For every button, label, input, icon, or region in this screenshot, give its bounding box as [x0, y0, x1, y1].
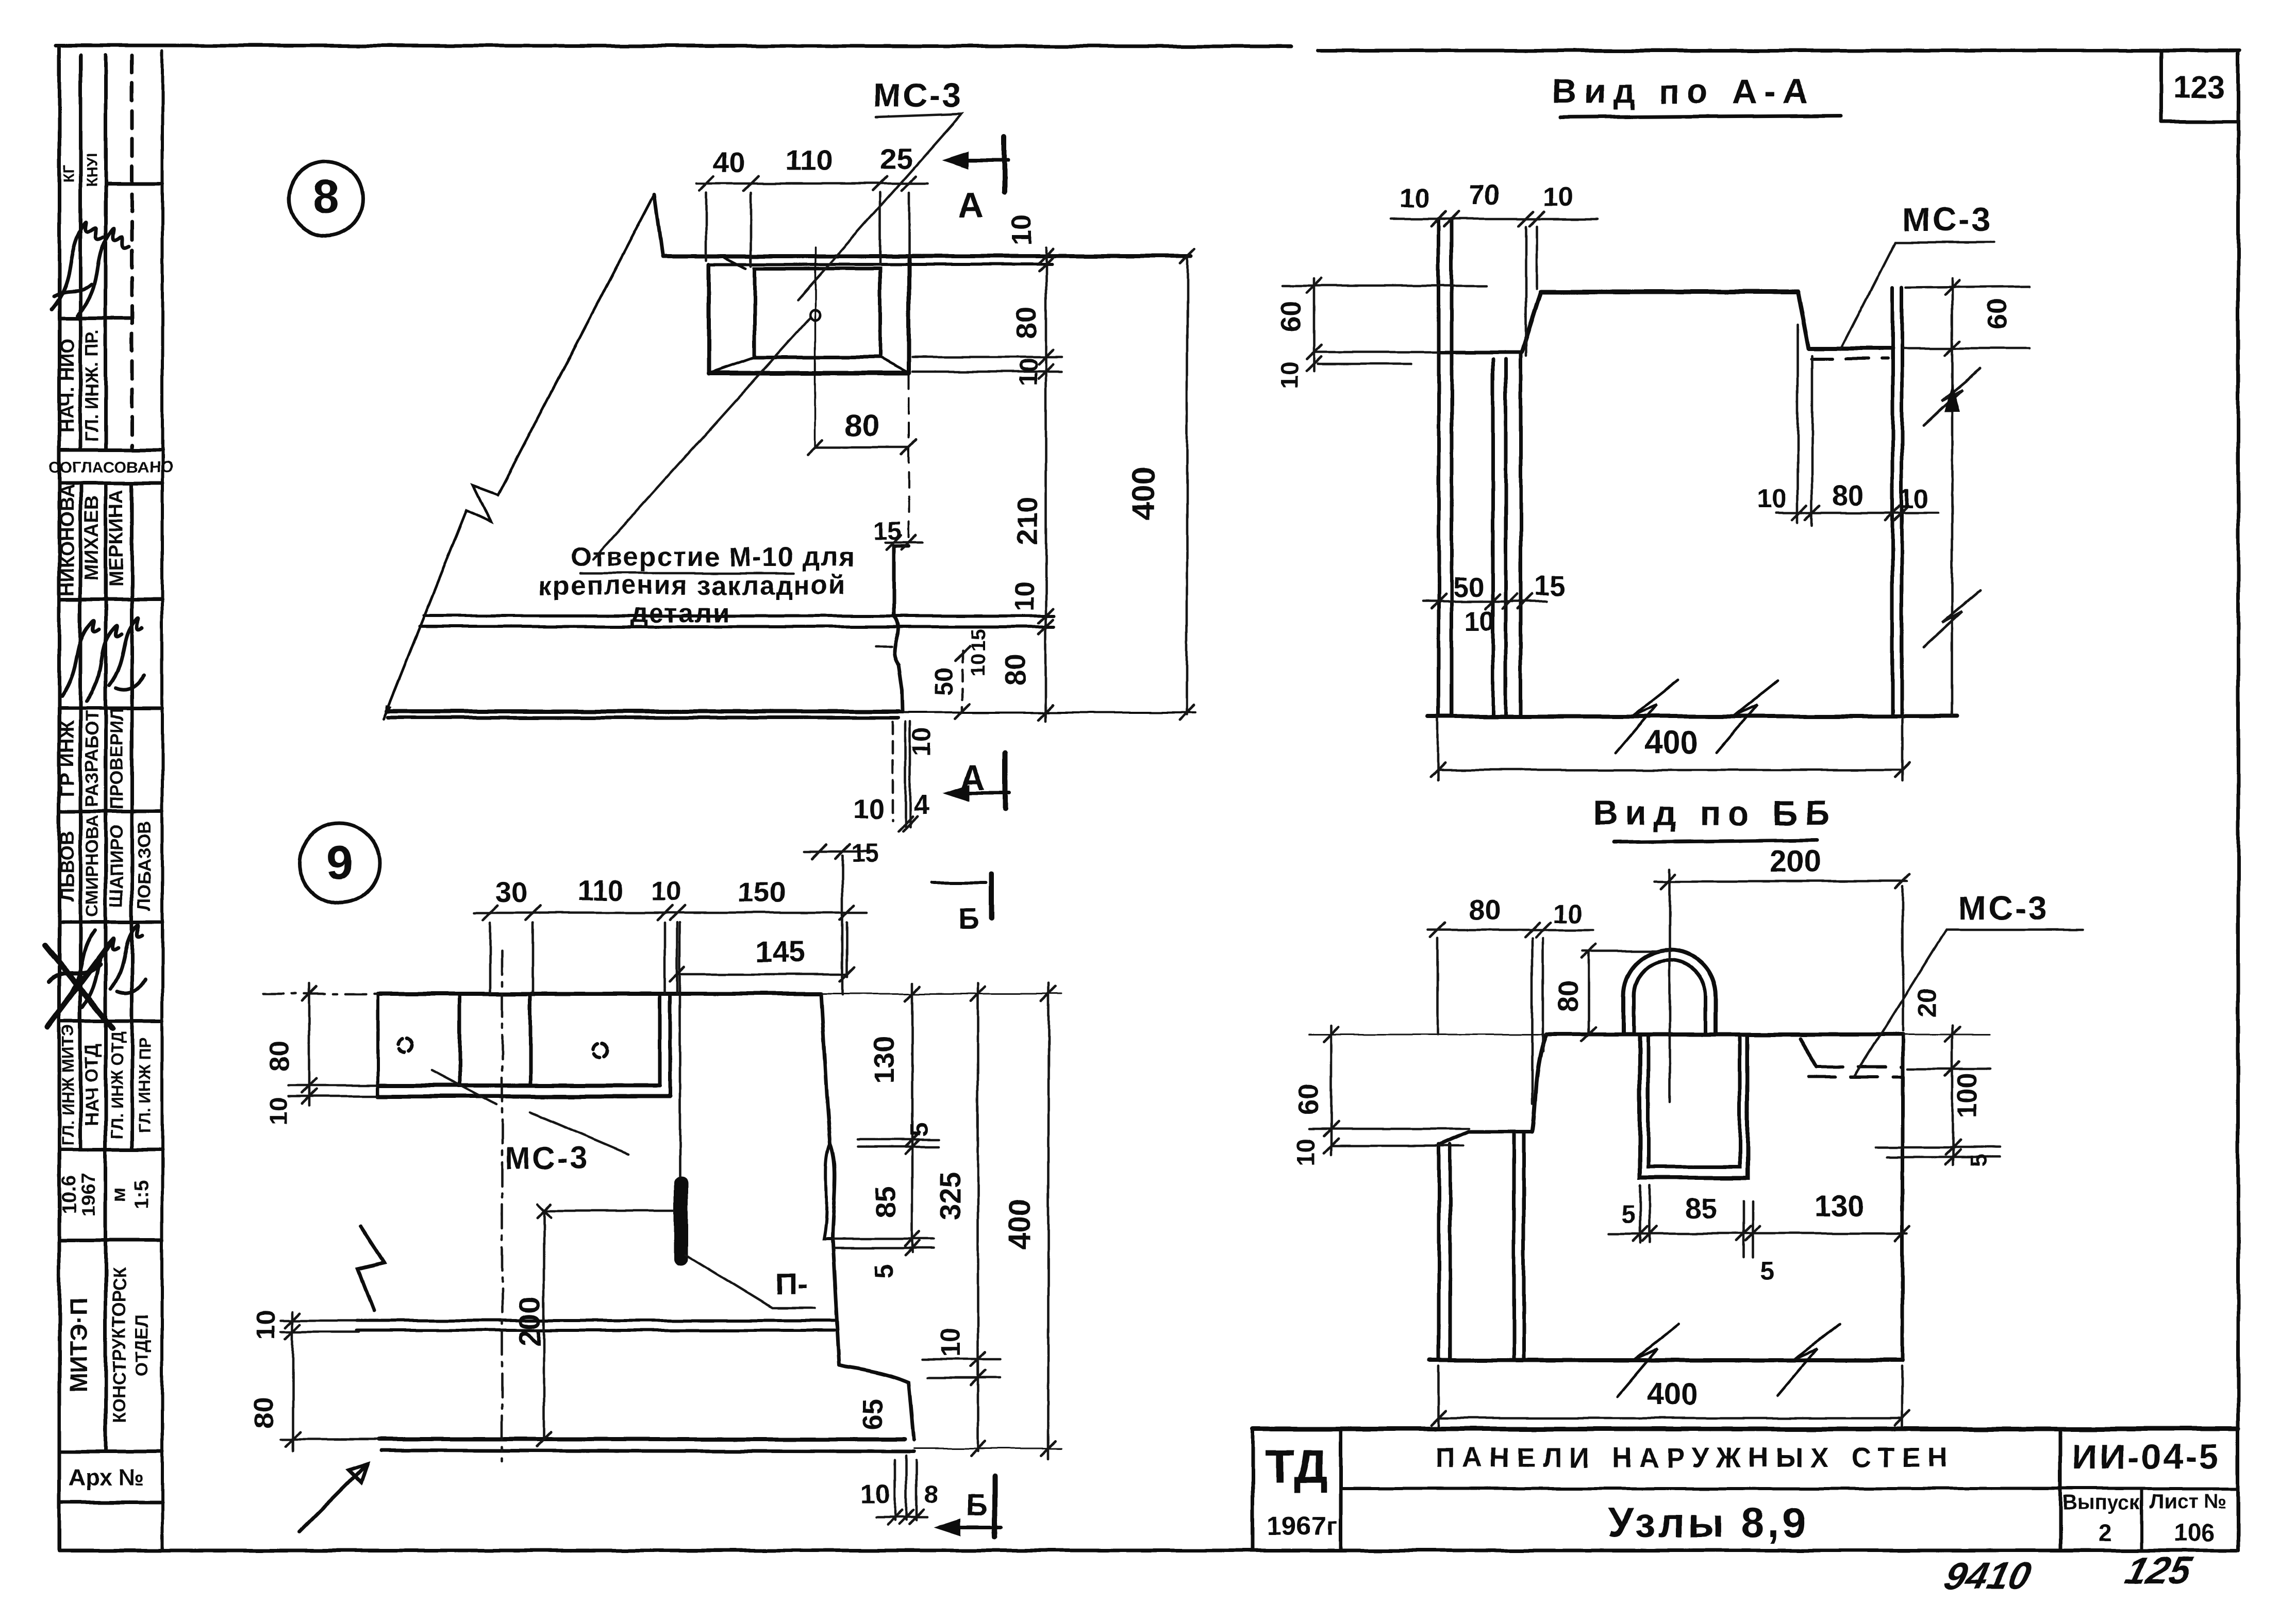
svg-text:80: 80 — [248, 1397, 279, 1428]
svg-text:5: 5 — [1965, 1154, 1991, 1167]
svg-text:200: 200 — [1769, 844, 1821, 879]
svg-text:10: 10 — [854, 794, 885, 825]
detail 9 slot centerline — [679, 923, 681, 1177]
svg-text:60: 60 — [1982, 299, 2012, 330]
svg-text:5: 5 — [871, 1264, 899, 1278]
section mark A bottom — [942, 754, 1009, 809]
svg-text:15: 15 — [874, 517, 902, 545]
svg-text:ПАНЕЛИ НАРУЖНЫХ СТЕН: ПАНЕЛИ НАРУЖНЫХ СТЕН — [1435, 1442, 1955, 1473]
svg-text:10: 10 — [1400, 183, 1430, 213]
svg-text:ОТДЕЛ: ОТДЕЛ — [132, 1314, 152, 1377]
svg-text:60: 60 — [1293, 1084, 1324, 1115]
svg-text:Б: Б — [958, 902, 979, 936]
svg-text:10: 10 — [1010, 581, 1040, 611]
svg-text:150: 150 — [738, 876, 786, 908]
svg-text:ПРОВЕРИЛ: ПРОВЕРИЛ — [107, 708, 127, 810]
title block texts — [1265, 1437, 2227, 1546]
svg-text:МИХАЕВ: МИХАЕВ — [81, 496, 103, 581]
view B-B dimension labels — [1292, 844, 1991, 1411]
detail 9 part outline — [356, 994, 914, 1451]
svg-text:210: 210 — [1011, 496, 1043, 544]
detail 9 MC-3 label — [505, 1141, 589, 1176]
svg-text:Б: Б — [966, 1489, 988, 1522]
svg-text:50: 50 — [1453, 572, 1484, 603]
svg-text:10: 10 — [251, 1310, 281, 1340]
svg-text:110: 110 — [577, 874, 624, 907]
svg-text:8: 8 — [924, 1481, 938, 1509]
svg-text:15: 15 — [1534, 571, 1565, 602]
sidebar cell texts — [48, 154, 173, 1491]
svg-text:10: 10 — [908, 728, 936, 757]
svg-text:70: 70 — [1469, 179, 1500, 210]
svg-text:КОНСТРУКТОРСК: КОНСТРУКТОРСК — [109, 1267, 129, 1424]
svg-text:10: 10 — [967, 654, 990, 677]
svg-text:ТД: ТД — [1265, 1440, 1328, 1494]
svg-text:30: 30 — [495, 876, 527, 908]
svg-text:крепления закладной: крепления закладной — [539, 571, 846, 600]
svg-text:60: 60 — [1276, 301, 1307, 332]
svg-text:400: 400 — [1126, 466, 1162, 521]
svg-text:МС-3: МС-3 — [505, 1141, 589, 1176]
view A-A title — [1552, 72, 1815, 111]
sheet number box — [2161, 51, 2237, 122]
svg-text:Отверстие М-10 для: Отверстие М-10 для — [571, 542, 856, 572]
svg-text:123: 123 — [2173, 70, 2225, 105]
section mark A top — [941, 137, 1008, 192]
svg-text:ГЛ. ИНЖ ПР: ГЛ. ИНЖ ПР — [136, 1037, 154, 1133]
svg-text:325: 325 — [934, 1172, 966, 1220]
svg-text:100: 100 — [1953, 1073, 1983, 1118]
svg-text:40: 40 — [713, 146, 745, 178]
sidebar signatures — [45, 223, 145, 1028]
svg-text:10: 10 — [1465, 606, 1494, 636]
svg-text:Вид по А-А: Вид по А-А — [1552, 72, 1815, 111]
detail 9 balloon circle — [300, 823, 380, 904]
svg-text:130: 130 — [868, 1036, 900, 1083]
svg-text:65: 65 — [858, 1399, 889, 1430]
svg-text:КНУІ: КНУІ — [84, 154, 101, 187]
svg-text:85: 85 — [1685, 1192, 1717, 1225]
svg-text:А: А — [958, 185, 984, 224]
svg-text:85: 85 — [869, 1186, 902, 1218]
detail 9 anchor holes — [398, 1038, 608, 1058]
detail 9 lifting slot — [674, 1177, 688, 1266]
svg-text:80: 80 — [845, 408, 879, 443]
svg-text:110: 110 — [786, 144, 833, 176]
svg-text:130: 130 — [1815, 1190, 1865, 1223]
svg-text:9: 9 — [326, 836, 353, 890]
svg-text:ИИ-04-5: ИИ-04-5 — [2072, 1437, 2221, 1477]
svg-text:м: м — [108, 1188, 130, 1202]
svg-text:Выпуск: Выпуск — [2062, 1491, 2141, 1514]
svg-text:МС-3: МС-3 — [1903, 201, 1993, 238]
svg-text:Узлы 8,9: Узлы 8,9 — [1608, 1500, 1808, 1546]
view B-B title — [1593, 794, 1837, 832]
svg-text:РАЗРАБОТ: РАЗРАБОТ — [82, 711, 102, 807]
svg-text:1967г: 1967г — [1267, 1511, 1337, 1541]
svg-text:80: 80 — [999, 654, 1031, 686]
svg-text:9410: 9410 — [1940, 1554, 2036, 1597]
svg-text:8: 8 — [312, 170, 339, 224]
svg-text:МС-3: МС-3 — [873, 76, 963, 114]
svg-text:1967: 1967 — [78, 1173, 99, 1217]
svg-text:4: 4 — [914, 790, 929, 821]
svg-text:ГЛ. ИНЖ ОТД: ГЛ. ИНЖ ОТД — [108, 1031, 126, 1139]
svg-text:80: 80 — [1010, 307, 1042, 339]
svg-text:НИКОНОВА: НИКОНОВА — [57, 484, 78, 596]
svg-text:200: 200 — [513, 1297, 547, 1347]
svg-text:10: 10 — [1006, 214, 1037, 245]
detail 9 break marks — [299, 1227, 384, 1532]
svg-text:МС-3: МС-3 — [1958, 889, 2049, 927]
svg-text:145: 145 — [755, 935, 805, 969]
svg-text:50: 50 — [930, 667, 958, 696]
svg-text:10.6: 10.6 — [58, 1176, 80, 1214]
svg-text:400: 400 — [1002, 1199, 1037, 1250]
view A-A dimension lines — [1284, 212, 2029, 781]
detail 9 dimension labels — [248, 840, 1037, 1509]
svg-text:А: А — [959, 758, 985, 797]
view B-B MC-3 label — [1958, 889, 2049, 927]
detail 8 note text — [539, 542, 856, 628]
detail 9 centerline — [501, 951, 504, 1461]
section mark B top — [932, 874, 991, 919]
view B-B part outline — [1429, 950, 1903, 1396]
svg-text:20: 20 — [1913, 988, 1943, 1017]
svg-text:СОГЛАСОВАНО: СОГЛАСОВАНО — [48, 458, 173, 476]
svg-text:400: 400 — [1644, 725, 1698, 761]
view A-A MC-3 label — [1903, 201, 1993, 238]
svg-text:10: 10 — [1899, 484, 1929, 514]
detail 8 dimension lines — [696, 176, 1194, 831]
svg-text:10: 10 — [265, 1097, 293, 1126]
detail 8 part outline — [384, 194, 1196, 719]
svg-text:25: 25 — [880, 142, 912, 175]
svg-text:ГЛ. ИНЖ. ПР.: ГЛ. ИНЖ. ПР. — [82, 329, 102, 441]
section mark B bottom — [934, 1476, 1001, 1537]
page frame right edge — [2237, 51, 2240, 1550]
svg-text:5: 5 — [1621, 1200, 1635, 1228]
svg-text:1:5: 1:5 — [131, 1181, 153, 1209]
svg-text:125: 125 — [2122, 1549, 2197, 1592]
detail 8 dimension labels — [713, 142, 1162, 825]
page frame top edge — [56, 45, 2240, 51]
svg-text:10: 10 — [1292, 1138, 1320, 1166]
svg-text:80: 80 — [264, 1040, 295, 1071]
svg-text:400: 400 — [1647, 1377, 1699, 1411]
svg-text:ШАПИРО: ШАПИРО — [107, 825, 127, 907]
detail 8 MC-3 label — [873, 76, 963, 114]
svg-text:НАЧ. НИО: НАЧ. НИО — [57, 338, 78, 433]
view B-B dimension lines — [1309, 869, 2000, 1428]
svg-text:ЛОБАЗОВ: ЛОБАЗОВ — [135, 821, 155, 911]
svg-text:ГР ИНЖ: ГР ИНЖ — [57, 721, 78, 796]
sidebar table grid — [59, 51, 162, 1550]
svg-text:Лист №: Лист № — [2150, 1490, 2227, 1513]
svg-text:15: 15 — [967, 629, 990, 652]
detail 9 P label — [775, 1267, 807, 1301]
page frame left edge — [58, 45, 61, 1550]
page frame bottom edge — [59, 1549, 2238, 1553]
view A-A dimension labels — [1276, 179, 2012, 761]
svg-text:ЛЬВОВ: ЛЬВОВ — [57, 830, 78, 901]
svg-text:15: 15 — [851, 840, 879, 867]
svg-text:Арх №: Арх № — [68, 1464, 144, 1491]
svg-text:80: 80 — [1469, 893, 1501, 926]
detail 8 note leader — [593, 319, 809, 559]
svg-text:МИТЭ·П: МИТЭ·П — [64, 1298, 92, 1393]
svg-text:МЕРКИНА: МЕРКИНА — [106, 490, 127, 587]
svg-text:80: 80 — [1553, 981, 1584, 1012]
handwritten archive numbers — [1940, 1549, 2197, 1597]
svg-text:2: 2 — [2099, 1519, 2112, 1546]
svg-text:10: 10 — [936, 1327, 966, 1357]
svg-text:5: 5 — [1760, 1257, 1774, 1285]
svg-text:10: 10 — [1543, 182, 1573, 212]
svg-text:10: 10 — [1757, 484, 1787, 514]
svg-text:детали: детали — [631, 598, 730, 628]
detail 8 balloon circle — [289, 161, 363, 236]
detail 9 dimension lines — [263, 844, 1062, 1525]
svg-text:КГ: КГ — [61, 164, 77, 182]
svg-text:106: 106 — [2174, 1519, 2214, 1546]
svg-text:ГЛ. ИНЖ МИТЭ: ГЛ. ИНЖ МИТЭ — [59, 1025, 77, 1145]
svg-text:10: 10 — [1015, 358, 1043, 387]
title block grid — [1253, 1429, 2238, 1550]
svg-text:Вид по ББ: Вид по ББ — [1593, 794, 1837, 832]
svg-text:НАЧ ОТД: НАЧ ОТД — [81, 1044, 102, 1126]
svg-text:5: 5 — [906, 1123, 934, 1137]
svg-text:СМИРНОВА: СМИРНОВА — [82, 815, 102, 917]
svg-text:80: 80 — [1832, 479, 1864, 511]
svg-text:10: 10 — [1276, 361, 1304, 390]
svg-text:10: 10 — [1552, 899, 1582, 929]
svg-text:10: 10 — [651, 877, 681, 907]
view A-A part outline — [1428, 219, 1957, 753]
svg-text:П-: П- — [775, 1267, 807, 1301]
svg-text:10: 10 — [860, 1479, 890, 1509]
